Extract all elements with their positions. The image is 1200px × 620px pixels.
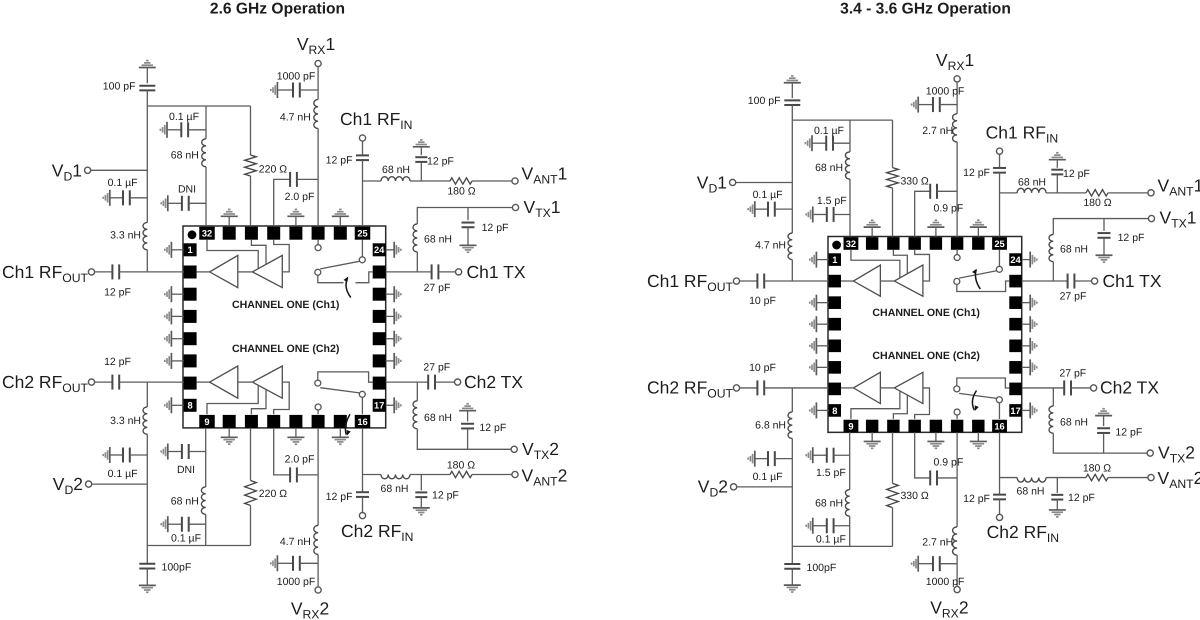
svg-text:CHANNEL ONE (Ch1): CHANNEL ONE (Ch1) <box>872 307 980 319</box>
op-amp A2a (Ch2 driver) <box>210 366 238 398</box>
node bottom rail <box>792 545 892 547</box>
svg-text:100 pF: 100 pF <box>748 95 781 107</box>
pin 10 <box>223 415 236 428</box>
ground at pin 19 <box>1022 366 1030 368</box>
wire VD2 rail <box>791 438 793 563</box>
pin 9 <box>844 420 859 433</box>
wire C22 to term <box>435 381 455 383</box>
pin 13 <box>930 420 942 433</box>
wire G1 to C1 <box>791 83 793 98</box>
inductor L2 68 nH <box>202 139 206 167</box>
terminal VANT1 <box>512 178 518 184</box>
capacitor C17 coupling <box>915 432 931 478</box>
ground G2 <box>139 584 156 586</box>
capacitor C5 1000 pF <box>276 82 278 98</box>
wire SW1 to pin23 <box>318 275 344 282</box>
pin 7 <box>184 377 197 390</box>
ground at pin 28 <box>935 227 937 236</box>
ground at pin 13 <box>935 432 937 441</box>
svg-text:0.1 µF: 0.1 µF <box>753 471 783 483</box>
terminal VD1 <box>85 167 91 173</box>
resistor R2 180 <box>450 178 472 184</box>
pin 23 <box>373 266 386 279</box>
capacitor C4 DNI <box>812 206 814 222</box>
wire L3 to pin27 <box>317 129 319 227</box>
svg-text:100pF: 100pF <box>162 562 192 574</box>
terminal VTX1 <box>512 204 518 210</box>
terminal VANT1 <box>1148 190 1154 196</box>
svg-text:0.9 pF: 0.9 pF <box>934 202 964 214</box>
svg-text:68 nH: 68 nH <box>171 150 199 162</box>
terminal VTX2 <box>511 446 517 452</box>
svg-text:68 nH: 68 nH <box>424 234 452 246</box>
wire A1a to A1b <box>238 271 253 273</box>
wire RFin1 upper <box>999 154 1001 168</box>
svg-text:27 pF: 27 pF <box>1059 368 1086 380</box>
wire L10 to VTX2 <box>1053 433 1147 453</box>
ground at pin 31 <box>871 227 873 236</box>
capacitor C7 12 pF <box>356 155 369 160</box>
svg-text:16: 16 <box>357 417 367 427</box>
wire TX1 tap <box>1052 262 1054 281</box>
svg-text:0.1 µF: 0.1 µF <box>814 125 844 137</box>
capacitor C1 100 pF <box>139 86 155 91</box>
svg-text:32: 32 <box>202 229 212 239</box>
switch SW1 contact b <box>954 278 960 284</box>
svg-text:2.0 pF: 2.0 pF <box>285 191 315 203</box>
svg-text:12 pF: 12 pF <box>1063 168 1090 180</box>
capacitor C12 12 pF <box>757 380 764 395</box>
node top rail <box>147 105 250 107</box>
capacitor C5 1000 pF <box>917 97 919 113</box>
pin 21 <box>373 310 386 323</box>
resistor R4 180 <box>1086 474 1108 480</box>
capacitor C15 DNI <box>167 444 169 460</box>
wire pin30 to amp A1b <box>893 250 907 274</box>
svg-text:10 pF: 10 pF <box>749 295 776 307</box>
ground G1 <box>784 82 801 84</box>
terminal VTX1 <box>1148 215 1154 221</box>
switch SW1 toggle arrow <box>975 270 980 289</box>
pin 8 <box>829 404 841 417</box>
svg-text:180 Ω: 180 Ω <box>447 185 475 197</box>
pin 29 <box>908 237 920 250</box>
capacitor C9 12 pF <box>467 208 469 221</box>
pin 30 <box>887 237 899 250</box>
capacitor C15 DNI <box>812 447 814 463</box>
capacitor C21 12 pF <box>1095 415 1112 417</box>
wire L9 to R4 <box>1046 477 1086 479</box>
svg-text:68 nH: 68 nH <box>171 495 199 507</box>
pin 20 <box>373 332 386 345</box>
pin 13 <box>289 415 302 428</box>
svg-text:12 pF: 12 pF <box>427 156 454 168</box>
capacitor C13 0.1 uF <box>754 451 756 467</box>
wire VD1 <box>736 181 793 183</box>
pin 26 <box>334 227 347 240</box>
wire pin23 to C10 <box>1022 280 1068 282</box>
svg-text:24: 24 <box>374 245 385 255</box>
svg-text:330 Ω: 330 Ω <box>900 176 928 188</box>
wire L4 to R2 <box>1046 192 1086 194</box>
pin 12 <box>908 420 920 433</box>
wire pin16 stub <box>998 403 1000 419</box>
svg-text:4.7 nH: 4.7 nH <box>280 536 311 548</box>
wire VD2 rail <box>146 434 148 563</box>
pin 29 <box>267 227 280 240</box>
pin 32 <box>844 237 859 250</box>
switch SW2 pole <box>359 391 365 397</box>
wire RFin1 to pin25 <box>362 160 364 226</box>
wire VD1 <box>91 169 148 171</box>
pin 21 <box>1009 318 1021 331</box>
capacitor C11 12 pF <box>112 264 119 279</box>
wire pin30 to amp A1b <box>251 240 266 265</box>
ground G2 <box>784 584 801 586</box>
switch SW1 pole <box>996 266 1002 272</box>
wire term to C12 <box>95 381 113 383</box>
wire SW1 to pin23 <box>957 281 1009 291</box>
wire C14 to G2 <box>791 569 793 585</box>
switch SW2 toggle arrow <box>345 414 350 434</box>
wire L1 to RFout1 <box>791 260 793 281</box>
svg-text:100 pF: 100 pF <box>103 81 136 93</box>
svg-text:3.3 nH: 3.3 nH <box>110 229 141 241</box>
pin 14 <box>312 415 325 428</box>
wire RFin1 to L4 <box>1000 192 1018 194</box>
svg-text:2.6 GHz Operation: 2.6 GHz Operation <box>210 1 345 18</box>
svg-text:8: 8 <box>188 401 193 411</box>
ground at pin 24 <box>1022 259 1030 261</box>
pin 11 <box>887 420 899 433</box>
capacitor C16 0.1 uF <box>812 518 814 534</box>
inductor L7 68 nH <box>201 487 205 514</box>
svg-text:16: 16 <box>994 421 1004 431</box>
capacitor C10 27 pF <box>1068 274 1075 289</box>
pin 22 <box>1009 296 1021 309</box>
wire C19 to term <box>999 499 1001 514</box>
ground at pin 8 <box>171 404 183 406</box>
pin 18 <box>1009 383 1021 396</box>
wire RFin1 to L4 <box>363 180 382 182</box>
svg-text:0.1 µF: 0.1 µF <box>108 177 138 189</box>
wire R2 to VANT1 <box>1108 192 1148 194</box>
wire pin11 to amp A2b <box>251 390 266 415</box>
pin 9 <box>199 415 215 428</box>
wire R1 to pin30 <box>892 188 894 237</box>
op-amp A2a (Ch2 driver) <box>853 372 880 403</box>
switch SW1 pole <box>359 257 365 263</box>
ground at pin 24 <box>386 249 395 251</box>
ground at pin 3 <box>816 302 828 304</box>
wire R4 to VANT2 <box>472 474 512 476</box>
wire G1 to C1 <box>146 68 148 84</box>
switch SW2 contact a <box>954 409 960 415</box>
wire TX1 tap <box>416 252 418 272</box>
capacitor C2 0.1 uF <box>754 201 756 217</box>
terminal VANT2 <box>1148 474 1154 480</box>
resistor R2 180 <box>1086 190 1108 196</box>
switch SW2 toggle arrow <box>972 391 976 410</box>
wire pin14 to L8 <box>317 428 319 526</box>
terminal VRX1 <box>315 60 321 66</box>
wire pin32 to amp A1b <box>851 250 900 278</box>
wire pin27 stub <box>317 240 319 245</box>
pin 1 indicator dot <box>832 241 841 250</box>
pin 24 <box>373 243 386 256</box>
svg-text:25: 25 <box>994 239 1004 249</box>
pin 19 <box>373 354 386 367</box>
ground at pin 8 <box>816 409 828 411</box>
inductor L7 68 nH <box>845 490 849 517</box>
svg-text:1000 pF: 1000 pF <box>926 85 965 97</box>
wire C11 to pin2 <box>119 271 183 273</box>
wire RFout2 to L6 <box>791 388 793 412</box>
op-amp A1b (Ch1 output) <box>252 255 282 287</box>
pin 18 <box>373 377 386 390</box>
capacitor C18 1000 pF <box>276 555 278 571</box>
wire TX2 tap <box>416 382 418 401</box>
svg-text:1000 pF: 1000 pF <box>277 576 316 588</box>
wire pin9 chain <box>849 432 851 489</box>
pin 11 <box>245 415 258 428</box>
pin 2 <box>184 266 197 279</box>
capacitor C12 12 pF <box>112 375 119 390</box>
wire pin11 to R3 <box>892 432 894 483</box>
wire L8 to VRX2 <box>317 554 319 587</box>
ground at pin 26 <box>339 216 341 226</box>
svg-text:220 Ω: 220 Ω <box>259 488 287 500</box>
ground at pin 20 <box>386 338 395 340</box>
svg-text:Ch2 TX: Ch2 TX <box>1100 378 1159 398</box>
wire pin18 to C22 <box>386 381 429 383</box>
inductor L10 68 nH <box>413 401 417 429</box>
svg-text:6.8 nH: 6.8 nH <box>755 419 786 431</box>
ground at pin 22 <box>386 293 395 295</box>
svg-text:17: 17 <box>1010 406 1020 416</box>
wire TX2 tap <box>1052 388 1054 406</box>
svg-text:10 pF: 10 pF <box>749 362 776 374</box>
inductor L6 3.3 nH <box>143 407 147 434</box>
wire L3 to pin27 <box>956 142 958 237</box>
svg-text:Ch1 TX: Ch1 TX <box>467 262 526 282</box>
pin 12 <box>267 415 280 428</box>
capacitor C16 0.1 uF <box>167 516 169 532</box>
inductor L8 4.7 nH <box>314 525 318 554</box>
wire pin25 stub <box>998 250 1000 266</box>
resistor R1 220 <box>887 168 899 188</box>
terminal VD1 <box>730 179 736 185</box>
ground at pin 4 <box>171 315 183 317</box>
svg-text:25: 25 <box>357 229 367 239</box>
terminal VRX1 <box>954 76 960 82</box>
switch SW2 pole <box>996 397 1002 403</box>
wire VD2 <box>737 486 793 488</box>
wire C11 to pin2 <box>764 280 828 282</box>
inductor L2 68 nH <box>845 152 850 179</box>
wire term to C11 <box>740 280 758 282</box>
ground at pin 21 <box>386 315 395 317</box>
svg-text:180 Ω: 180 Ω <box>1083 197 1111 209</box>
wire R3 to rail <box>250 506 252 546</box>
capacitor C20 12 pF <box>1056 478 1058 493</box>
inductor L1 3.3 nH <box>788 233 792 259</box>
pin 4 <box>184 310 197 323</box>
svg-text:0.9 pF: 0.9 pF <box>934 457 964 469</box>
pin 32 <box>199 227 215 240</box>
switch SW1 blade <box>959 271 996 278</box>
wire pin7 to A2a <box>841 387 853 389</box>
svg-text:1000 pF: 1000 pF <box>277 71 316 83</box>
resistor R3 220 <box>887 483 899 507</box>
pin 1 <box>829 253 841 266</box>
svg-text:12 pF: 12 pF <box>963 167 990 179</box>
wire RFin2 to L9 <box>1000 477 1018 479</box>
svg-text:1: 1 <box>188 245 193 255</box>
switch SW2 contact b <box>315 380 321 386</box>
svg-text:17: 17 <box>374 401 384 411</box>
svg-text:68 nH: 68 nH <box>815 497 843 509</box>
wire A2a to A2b <box>880 387 894 389</box>
pin 10 <box>866 420 878 433</box>
svg-text:CHANNEL ONE (Ch2): CHANNEL ONE (Ch2) <box>232 343 340 355</box>
terminal Ch2 TX <box>455 379 461 385</box>
pin 28 <box>930 237 942 250</box>
wire C10 to term <box>438 271 455 273</box>
svg-text:180 Ω: 180 Ω <box>447 459 475 471</box>
svg-text:12 pF: 12 pF <box>432 490 459 502</box>
wire C19 to term <box>362 497 364 513</box>
pin 31 <box>866 237 878 250</box>
wire term to C12 <box>740 387 758 389</box>
ground at pin 31 <box>228 216 230 226</box>
switch SW1 blade <box>320 261 359 269</box>
terminal VTX2 <box>1147 450 1153 456</box>
capacitor C8 12 pF <box>413 146 430 148</box>
svg-text:4.7 nH: 4.7 nH <box>280 111 311 123</box>
capacitor C17 coupling <box>274 428 290 475</box>
inductor L4 68 nH <box>381 177 410 181</box>
svg-text:68 nH: 68 nH <box>424 412 452 424</box>
wire L5 to VTX1 <box>1053 219 1148 235</box>
wire pin14 to L8 <box>956 432 958 527</box>
pin 5 <box>829 340 841 353</box>
ground at pin 5 <box>816 345 828 347</box>
inductor L8 4.7 nH <box>953 527 958 555</box>
capacitor C19 12 pF <box>993 495 1006 500</box>
svg-text:68 nH: 68 nH <box>1016 485 1044 497</box>
svg-text:12 pF: 12 pF <box>1118 232 1145 244</box>
svg-text:0.1 µF: 0.1 µF <box>171 532 201 544</box>
pin 16 <box>355 415 371 428</box>
terminal VANT2 <box>512 471 518 477</box>
pin 16 <box>992 420 1007 433</box>
capacitor C19 12 pF <box>356 492 369 497</box>
svg-text:12 pF: 12 pF <box>482 222 509 234</box>
switch SW1 toggle arrow <box>346 278 351 298</box>
pin 27 <box>951 237 963 250</box>
terminal Ch2 RFout <box>88 379 94 385</box>
wire pin12 to amp A2b input <box>274 382 290 414</box>
capacitor C3 0.1 uF <box>811 135 813 151</box>
ground at pin 6 <box>171 360 183 362</box>
ground at pin 4 <box>816 323 828 325</box>
wire C12 to pin7 <box>764 387 828 389</box>
ground at pin 6 <box>816 366 828 368</box>
pin 23 <box>1009 275 1021 288</box>
svg-text:2.7 nH: 2.7 nH <box>922 125 953 137</box>
svg-text:12 pF: 12 pF <box>326 155 353 167</box>
ground at pin 1 <box>171 249 183 251</box>
ground at pin 10 <box>228 428 230 437</box>
ground at pin 1 <box>816 259 828 261</box>
svg-text:3.3 nH: 3.3 nH <box>110 415 141 427</box>
svg-text:68 nH: 68 nH <box>1018 176 1046 188</box>
wire C10 to term <box>1074 280 1091 282</box>
switch SW2 blade <box>959 393 996 398</box>
wire pin16 to C19 <box>999 432 1001 494</box>
svg-text:100pF: 100pF <box>807 562 837 574</box>
pin 3 <box>829 296 841 309</box>
wire L8 to VRX2 <box>956 555 958 587</box>
capacitor C10 27 pF <box>432 264 439 279</box>
capacitor C6 coupling <box>274 179 290 226</box>
wire pin29 to amp A1b input <box>915 250 930 281</box>
wire A1a to A1b <box>880 280 894 282</box>
svg-text:68 nH: 68 nH <box>382 164 410 176</box>
pin 15 <box>972 420 984 433</box>
pin 1 <box>184 243 197 256</box>
wire pin16 stub <box>361 397 363 414</box>
op-amp A1b (Ch1 output) <box>894 265 923 296</box>
wire rail to R1 <box>250 106 252 155</box>
wire L7 to rail <box>205 514 207 545</box>
wire L9 to R4 <box>410 474 450 476</box>
resistor R4 180 <box>450 471 472 477</box>
ground at pin 17 <box>1022 409 1030 411</box>
svg-text:Ch2 TX: Ch2 TX <box>464 372 523 392</box>
wire pin23 to C10 <box>386 271 432 273</box>
ground at pin 21 <box>1022 323 1030 325</box>
capacitor C14 100pF <box>784 564 800 569</box>
terminal VD2 <box>86 481 92 487</box>
wire rail tap <box>849 120 851 152</box>
svg-text:0.1 µF: 0.1 µF <box>753 189 783 201</box>
terminal Ch1 TX <box>456 269 462 275</box>
wire L2 to pin32 <box>849 179 851 236</box>
pin 15 <box>334 415 347 428</box>
wire SW2 to pin18 <box>318 372 373 382</box>
op-amp A1a (Ch1 driver) <box>210 255 238 287</box>
svg-text:2.7 nH: 2.7 nH <box>922 537 953 549</box>
wire pin18 to C22 <box>1022 387 1064 389</box>
wire L7 to rail <box>849 516 851 546</box>
resistor R3 220 <box>245 481 257 506</box>
wire R1 to pin30 <box>250 176 252 226</box>
pin 30 <box>245 227 258 240</box>
ground at pin 5 <box>171 338 183 340</box>
pin 2 <box>829 275 841 288</box>
capacitor C7 12 pF <box>993 168 1006 173</box>
wire VD1 rail upper <box>791 105 793 233</box>
wire L5 to VTX1 <box>417 208 512 224</box>
terminal Ch1 TX <box>1092 278 1098 284</box>
wire C22 to term <box>1071 387 1091 389</box>
resistor R1 220 <box>245 155 257 176</box>
svg-text:12 pF: 12 pF <box>479 422 506 434</box>
capacitor C9 12 pF <box>1103 219 1105 231</box>
ground at pin 15 <box>977 432 979 441</box>
